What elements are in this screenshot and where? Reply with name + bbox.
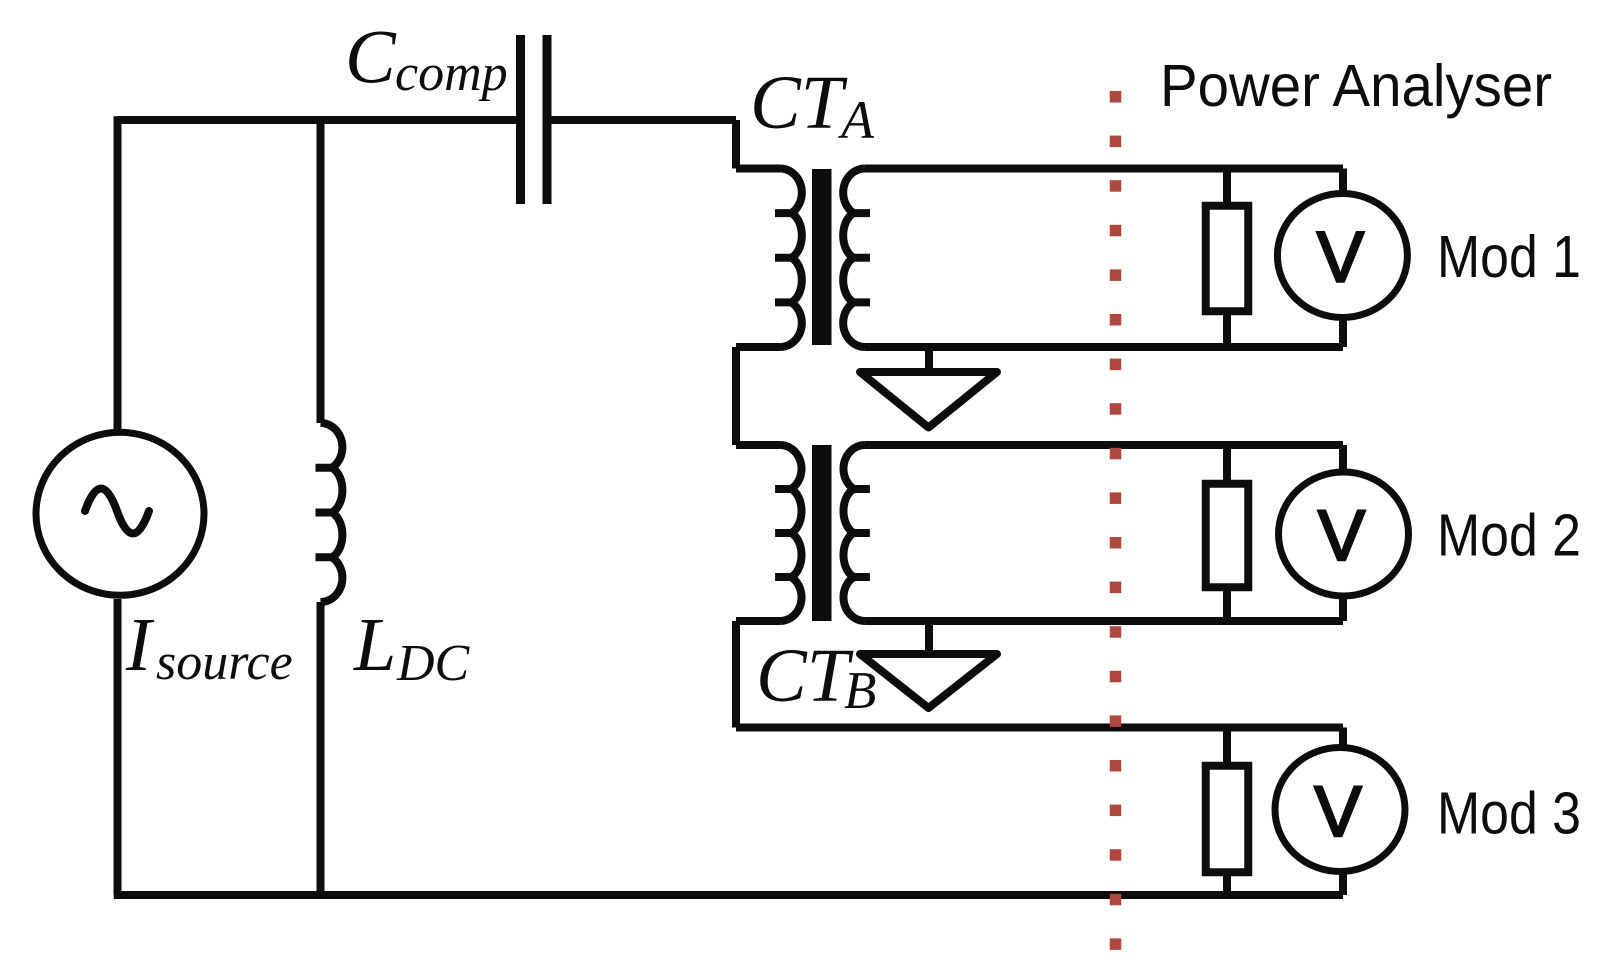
voltmeter V1: [1277, 194, 1407, 318]
voltmeter V2: [1279, 472, 1409, 596]
wire: top rail left of capacitor: [118, 116, 518, 120]
capacitor C_comp plates: [521, 35, 548, 204]
inductor L_DC winding: [316, 423, 343, 602]
transformer CT_A primary winding: [775, 169, 802, 348]
ground stub 2: [925, 621, 933, 654]
svg-text:V: V: [1314, 773, 1362, 852]
wire: CT_B primary top lead: [736, 441, 780, 449]
wire: module 2 resistor top stub: [1223, 445, 1231, 484]
wire: module 3 resistor bottom stub: [1223, 872, 1231, 895]
wire: module 3 resistor top stub: [1223, 728, 1231, 766]
ground 1: [860, 372, 997, 428]
resistor R3 (burden): [1206, 766, 1249, 873]
wire: L_DC top vertical: [317, 120, 325, 423]
svg-text:Mod 2: Mod 2: [1437, 503, 1581, 569]
wire: module 1 resistor bottom stub: [1223, 311, 1231, 347]
svg-text:V: V: [1317, 219, 1365, 298]
svg-text:Mod 3: Mod 3: [1437, 781, 1581, 847]
wire: module 2 resistor bottom stub: [1223, 587, 1231, 621]
wire: CT_A primary top lead: [736, 165, 780, 173]
ground 2: [860, 654, 997, 708]
wire: source bottom vertical: [114, 599, 122, 895]
wire: module 2 voltmeter bottom stub: [1339, 594, 1347, 621]
resistor R2 (burden): [1206, 484, 1249, 588]
wire: module 3 voltmeter top stub: [1339, 728, 1347, 750]
wire: vertical CT_A primary to CT_B primary: [732, 347, 740, 445]
wire: CT_B secondary top rail: [865, 441, 1343, 449]
wire: bottom rail: [114, 891, 1343, 899]
transformer CT_A core: [812, 169, 832, 345]
wire: Mod 3 feed rail: [736, 724, 1343, 732]
power analyser boundary dotted line: [1110, 91, 1122, 950]
wire: vertical CT_B primary to Mod 3 feed: [732, 621, 740, 728]
wire: module 1 voltmeter bottom stub: [1339, 316, 1347, 348]
wire: CT_A secondary top rail: [865, 165, 1343, 173]
transformer CT_B primary winding: [775, 445, 801, 621]
wire: top rail right of capacitor: [550, 116, 736, 124]
svg-text:Power Analyser: Power Analyser: [1160, 53, 1552, 119]
wire: module 2 voltmeter top stub: [1339, 445, 1347, 474]
wire: vertical from capacitor to CT_A primary: [732, 120, 740, 169]
resistor R1 (burden): [1206, 206, 1249, 312]
ground stub 1: [925, 347, 933, 372]
svg-text:Mod 1: Mod 1: [1437, 224, 1581, 290]
transformer CT_A secondary winding: [843, 169, 870, 348]
transformer CT_B secondary winding: [843, 445, 869, 621]
wire: module 3 voltmeter bottom stub: [1339, 870, 1347, 896]
wire: CT_A secondary bottom rail: [865, 343, 1343, 351]
transformer CT_B core: [812, 445, 832, 621]
voltmeter V3: [1275, 748, 1405, 872]
current source I_source symbol: [36, 432, 204, 595]
wire: module 1 resistor top stub: [1223, 169, 1231, 206]
wire: CT_B primary bottom lead: [736, 617, 780, 625]
wire: module 1 voltmeter top stub: [1339, 169, 1347, 196]
wire: L_DC bottom vertical: [317, 602, 325, 895]
wire: CT_A primary bottom lead: [736, 343, 780, 351]
svg-text:V: V: [1318, 497, 1366, 576]
wire: source top vertical: [114, 120, 122, 429]
wire: CT_B secondary bottom rail: [865, 617, 1343, 625]
